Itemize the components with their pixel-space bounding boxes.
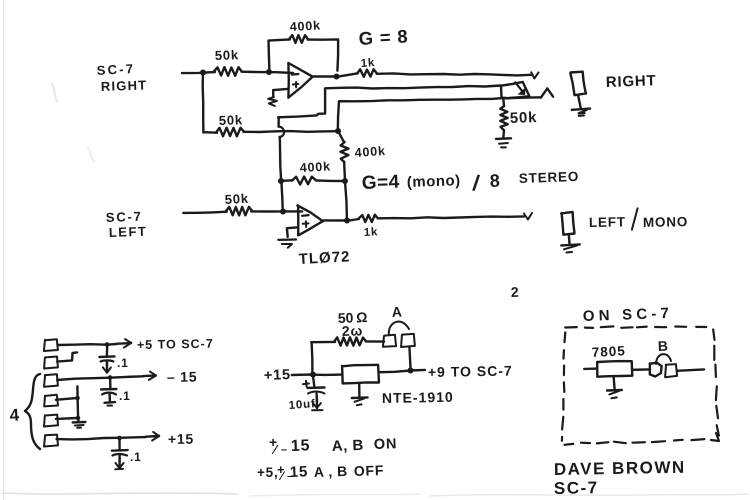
resistor R8 1k xyxy=(359,215,379,239)
junction: U1B inverting input node xyxy=(280,209,286,215)
wire: P1 pin3 -15 rail xyxy=(57,376,143,380)
connector P1 pin 3 xyxy=(44,374,58,386)
label: +15 xyxy=(168,431,194,447)
junction: U1A inverting input node xyxy=(266,69,272,75)
arrow: -15 xyxy=(143,372,156,380)
switch A pad 2 xyxy=(401,334,415,347)
svg-text:TLØ72: TLØ72 xyxy=(298,248,351,268)
connector P1 pin 2 xyxy=(44,357,58,369)
node label: SC-7 LEFT input xyxy=(106,209,148,240)
wire: U1A output xyxy=(312,75,336,77)
svg-text:8: 8 xyxy=(489,171,501,191)
svg-text:G = 8: G = 8 xyxy=(358,25,409,49)
junction: +15 node xyxy=(310,372,316,378)
wire: pot wiper return (middle long wire) xyxy=(278,86,501,118)
junction: +5 rail cap tap xyxy=(105,342,110,347)
wire: switch B out xyxy=(677,369,704,370)
svg-text:–: – xyxy=(281,444,288,456)
label: 10uf xyxy=(288,398,316,412)
junction: pin5 bus xyxy=(76,416,81,421)
resistor VR1 50k to ground leg xyxy=(500,98,537,137)
ground: P1 bus xyxy=(73,419,86,428)
svg-text:LEFT: LEFT xyxy=(109,224,148,240)
svg-text:.1: .1 xyxy=(119,389,131,403)
svg-text:B: B xyxy=(658,338,669,354)
ground: C3 arrow xyxy=(115,456,123,470)
svg-text:15: 15 xyxy=(290,463,309,481)
svg-text:+15: +15 xyxy=(168,431,194,447)
label: +9 TO SC-7 xyxy=(428,363,513,380)
label: +/-15 A,B ON xyxy=(269,434,397,457)
arc: jumper A xyxy=(389,322,409,335)
svg-text:SC-7: SC-7 xyxy=(554,478,599,498)
svg-text:DAVE BROWN: DAVE BROWN xyxy=(554,458,686,479)
wire: J2 to ground xyxy=(568,234,571,243)
wire: U1B non-inverting input to ground xyxy=(287,227,298,237)
label: page number 2 xyxy=(511,284,520,300)
svg-text:2ω: 2ω xyxy=(342,322,364,339)
label: 50 ohm 2W xyxy=(338,309,369,339)
ground: U2 xyxy=(352,397,368,405)
resistor R1 50k xyxy=(214,47,242,76)
wire: switch A to +9 node xyxy=(409,347,410,370)
svg-text:G=4: G=4 xyxy=(361,172,400,194)
svg-text:15: 15 xyxy=(291,437,311,455)
connector P1 pin 1 xyxy=(44,339,58,351)
svg-text:ON: ON xyxy=(374,436,398,453)
connector P1 pin 5 xyxy=(44,415,58,427)
label: +5 TO SC-7 xyxy=(137,337,214,352)
capacitor C4 10uF plus xyxy=(303,381,309,387)
label: NTE-1910 xyxy=(382,389,454,406)
svg-text:SC-7: SC-7 xyxy=(96,61,135,78)
wire: U1A feedback loop xyxy=(269,39,339,71)
wire: R5 bottom to U1B output node xyxy=(345,181,347,220)
resistor R5 400k (vertical) xyxy=(338,131,386,181)
svg-text:A , B: A , B xyxy=(314,463,348,480)
label: G = 8 xyxy=(358,25,409,49)
regulator U3 7805 box xyxy=(597,361,632,377)
resistor R3 1k xyxy=(357,57,377,77)
wire: 7805 out to switch B xyxy=(633,368,651,371)
svg-text:– 15: – 15 xyxy=(167,368,198,385)
label: A xyxy=(391,303,403,320)
connector P1 pin 6 xyxy=(44,435,58,447)
junction: +9 node xyxy=(408,368,414,374)
switch B pad 2 xyxy=(665,364,677,377)
junction: U1B output node xyxy=(344,218,350,224)
svg-text:ON SC-7: ON SC-7 xyxy=(583,305,674,325)
regulator U2 NTE-1910 box xyxy=(342,365,379,384)
resistor R9 50 ohm 2W xyxy=(334,337,366,345)
wire: right mix branch to R4 xyxy=(204,131,218,134)
capacitor C2 0.1 xyxy=(101,389,131,403)
label: ON SC-7 xyxy=(583,305,674,325)
svg-text:OFF: OFF xyxy=(354,462,385,479)
dashed box: ON SC-7 xyxy=(562,326,719,444)
svg-text:50k: 50k xyxy=(215,47,240,63)
resistor R2 400k (U1A feedback) xyxy=(289,18,321,43)
svg-text:7805: 7805 xyxy=(591,343,626,360)
ground: C4 arrow xyxy=(312,393,322,410)
wire: U1A non-inverting input to ground xyxy=(273,89,288,97)
junction: right input node xyxy=(200,70,206,76)
wire: right channel long wire to pot top xyxy=(377,72,539,78)
label: DAVE BROWN xyxy=(554,458,686,479)
ground: C2 arrow xyxy=(105,394,116,405)
svg-text:A, B: A, B xyxy=(332,437,365,455)
resistor R7 50k xyxy=(224,191,252,216)
capacitor C2 0.1 lead xyxy=(109,377,112,388)
wire: R1 to U1A inverting input xyxy=(242,72,293,73)
wire: P1 pin4 to ground bus xyxy=(56,398,78,400)
wire: bottom long wire to pot xyxy=(338,98,506,131)
capacitor C3 0.1 xyxy=(112,450,142,464)
svg-text:(mono): (mono) xyxy=(407,172,461,191)
capacitor C4 10uF xyxy=(308,388,325,394)
wire: R9 branch vertical xyxy=(310,342,313,374)
junction: feedback left node xyxy=(278,178,284,184)
switch A pad 1 xyxy=(383,335,396,347)
svg-text:NTE-1910: NTE-1910 xyxy=(382,389,454,406)
wire: output node to R8 xyxy=(347,219,359,221)
ground: U1B + input xyxy=(278,240,296,248)
capacitor C1 0.1 xyxy=(99,356,128,370)
svg-text:+5,: +5, xyxy=(257,465,279,480)
label: 4 with brace xyxy=(9,374,40,449)
svg-text:RIGHT: RIGHT xyxy=(101,77,148,94)
junction: feedback right node xyxy=(342,178,348,184)
ground: U3 xyxy=(607,390,622,398)
wire: 7805 input xyxy=(584,367,597,370)
svg-text:1k: 1k xyxy=(364,226,379,239)
wire: +15 to U2 xyxy=(292,373,342,376)
wire: ground bus vertical xyxy=(76,386,79,418)
node label: SC-7 RIGHT input xyxy=(96,61,147,94)
label: 7805 xyxy=(591,343,626,360)
junction: U1A output node xyxy=(334,74,340,80)
connector P1 pin 4 xyxy=(44,395,58,407)
jack J2 LEFT/MONO xyxy=(561,212,574,235)
wire: U1B output xyxy=(323,219,347,222)
label: TL072 xyxy=(298,248,351,268)
label: -15 xyxy=(167,368,198,385)
wire: SC-7 RIGHT input to R1 xyxy=(182,72,215,73)
svg-text:400k: 400k xyxy=(289,18,321,34)
wire: J1 to ground xyxy=(578,95,581,107)
label: B xyxy=(658,338,669,354)
arrow: +15 xyxy=(146,432,159,441)
capacitor C4 10uF lead xyxy=(313,375,315,387)
jack J1 RIGHT xyxy=(570,72,586,96)
svg-text:.1: .1 xyxy=(130,450,142,464)
junction: pin4 bus xyxy=(75,396,80,401)
op-amp U1B xyxy=(297,205,323,235)
potentiometer VR1 wiper arrow xyxy=(515,82,525,95)
svg-text:A: A xyxy=(391,303,403,320)
wire: P1 pin1 +5 rail xyxy=(58,343,117,346)
svg-text:1k: 1k xyxy=(360,57,375,70)
svg-text:50k: 50k xyxy=(224,191,249,207)
wire: P1 pin6 +15 rail xyxy=(57,437,147,439)
ground: pot leg xyxy=(496,138,511,147)
wire: U2 out to +9 node xyxy=(379,370,425,372)
arrow: +5 to SC-7 xyxy=(116,339,131,348)
wire: U2 ground lead xyxy=(358,383,361,396)
label: +5,+/-15 A,B OFF xyxy=(257,462,384,483)
svg-text:400k: 400k xyxy=(354,144,386,160)
wire: right mix branch vertical xyxy=(201,73,204,133)
junction: +15 rail cap tap xyxy=(117,436,122,441)
svg-text:+15: +15 xyxy=(264,367,292,384)
svg-text:SC-7: SC-7 xyxy=(106,209,143,225)
svg-text:400k: 400k xyxy=(299,159,331,175)
svg-text:50k: 50k xyxy=(510,109,538,127)
wire: left/mono long output wire xyxy=(378,213,532,219)
capacitor C1 0.1 lead xyxy=(106,345,109,356)
label: SC-7 (signature) xyxy=(554,478,599,498)
wire: R4 to bottom vertical xyxy=(243,130,338,133)
svg-text:LEFT: LEFT xyxy=(589,214,626,230)
svg-text:/: / xyxy=(471,170,481,196)
svg-text:.1: .1 xyxy=(117,356,129,370)
svg-text:4: 4 xyxy=(9,405,21,425)
label: LEFT/MONO xyxy=(589,208,688,230)
svg-text:+5 TO SC-7: +5 TO SC-7 xyxy=(137,337,214,352)
ground: U1A + input xyxy=(268,97,277,106)
wire: P1 pin2 jumper xyxy=(57,352,77,361)
ground: C1 arrow xyxy=(103,361,111,372)
svg-text:2: 2 xyxy=(511,284,520,300)
wire: R9 to switch A xyxy=(366,340,384,343)
label: +15 (A) xyxy=(264,367,292,384)
potentiometer VR1 50k body xyxy=(501,82,530,98)
wire: vertical with hop to U1B summing node xyxy=(279,118,285,181)
resistor R4 50k (right mix) xyxy=(216,112,244,136)
label: RIGHT xyxy=(606,72,657,91)
svg-text:+9 TO SC-7: +9 TO SC-7 xyxy=(428,363,513,380)
junction: mix node at vertical xyxy=(335,128,341,134)
label: G=4 (mono) / 8 STEREO xyxy=(361,169,579,196)
ground: J1 xyxy=(572,109,590,116)
svg-text:MONO: MONO xyxy=(643,214,688,230)
arc: jumper B xyxy=(656,354,671,364)
resistor R6 400k (U1B feedback) xyxy=(281,159,345,184)
wire: P1 pin5 to ground bus xyxy=(56,417,78,420)
wire: hop line lower segment xyxy=(281,181,282,211)
wire: pot output with bump to jack xyxy=(506,88,553,98)
svg-text:STEREO: STEREO xyxy=(519,169,580,186)
junction: -15 rail cap tap xyxy=(108,375,113,380)
switch B pad 1 (plug) xyxy=(650,363,662,377)
op-amp U1A xyxy=(288,63,312,98)
wire: U3 ground lead xyxy=(614,376,615,389)
capacitor C3 0.1 lead xyxy=(118,438,120,450)
wire: SC-7 LEFT input to R7 xyxy=(183,212,227,213)
svg-text:RIGHT: RIGHT xyxy=(606,72,657,91)
svg-text:50k: 50k xyxy=(219,112,244,128)
wire: 50ohm left leg xyxy=(311,341,335,344)
wire: R7 to U1B inverting input xyxy=(251,210,302,213)
wire: U1A output node to R3 xyxy=(336,73,358,77)
ground: J2 xyxy=(561,244,580,252)
